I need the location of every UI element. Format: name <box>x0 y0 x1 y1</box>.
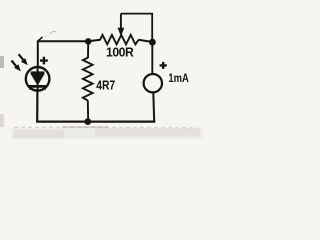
polarity + (current source) <box>160 62 167 69</box>
wire: 100R right lead to junction B <box>138 40 152 42</box>
wire: corner serif artifact at top-left bend <box>39 37 43 41</box>
photodiode D1 (photocell) <box>26 67 50 91</box>
wiper arrow of VR1 <box>118 14 125 37</box>
svg-text:4R7: 4R7 <box>96 77 115 92</box>
node junction B <box>149 39 156 46</box>
svg-text:1mA: 1mA <box>168 71 189 85</box>
svg-text:100R: 100R <box>106 46 134 60</box>
resistor R1 4R7 body (zigzag) <box>83 58 93 101</box>
resistor R1 4R7 bottom lead <box>87 100 89 121</box>
polarity + (photodiode) <box>40 57 48 65</box>
wire: junction A to 100R left lead <box>88 40 101 41</box>
decorative scan artifacts (unlabeled) <box>0 56 4 68</box>
wire: bottom rail <box>36 120 155 122</box>
light arrow 1 (upper) <box>19 54 28 65</box>
potentiometer VR1 100R body (zigzag) <box>100 35 139 45</box>
wire: wiper loop to junction B <box>121 14 152 42</box>
node junction C <box>84 118 91 125</box>
wire: junction B down to current source <box>151 42 153 74</box>
wire: current source to bottom rail <box>152 92 155 121</box>
wire: photodiode bottom to bottom rail <box>36 90 38 121</box>
node junction A <box>85 38 92 45</box>
resistor R1 4R7 top lead <box>87 41 89 58</box>
wire: photodiode top to junction A (top-left rail) <box>38 41 88 67</box>
light arrow 2 (lower) <box>12 61 21 72</box>
current source I1 <box>144 74 162 92</box>
